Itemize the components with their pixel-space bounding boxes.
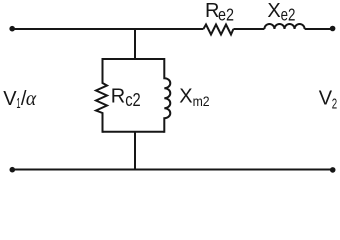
node terminal dot top-right [330, 26, 336, 32]
wire bottom rail [12, 169, 333, 171]
inductor X_e2 [264, 24, 304, 29]
wire top rail right segment [305, 28, 333, 30]
svg-text:m2: m2 [193, 93, 210, 109]
svg-text:e2: e2 [281, 5, 296, 25]
wire top rail left segment [12, 28, 203, 30]
wire top rail middle segment [233, 28, 264, 30]
resistor R_c2 [96, 58, 107, 133]
svg-text:c2: c2 [125, 90, 141, 110]
svg-text:V: V [3, 88, 17, 110]
svg-text:V: V [319, 88, 333, 110]
node terminal dot bottom-right [330, 167, 336, 173]
svg-text:X: X [267, 0, 280, 22]
resistor R_e2 [203, 25, 233, 35]
node terminal dot top-left [9, 26, 15, 32]
wire vertical stub bottom [134, 132, 136, 170]
wire box top edge [103, 58, 165, 60]
svg-text:e2: e2 [218, 5, 234, 25]
inductor X_m2 [164, 58, 170, 133]
svg-text:α: α [26, 89, 37, 110]
node terminal dot bottom-left [10, 167, 16, 173]
wire box bottom edge [103, 131, 165, 133]
wire vertical stub top [134, 29, 136, 59]
svg-text:R: R [111, 86, 125, 108]
svg-text:X: X [179, 85, 192, 107]
svg-text:2: 2 [332, 96, 337, 113]
